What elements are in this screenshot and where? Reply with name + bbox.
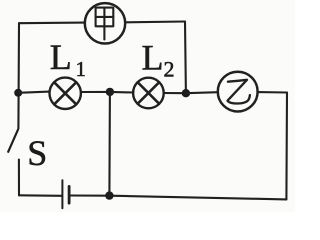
battery long plate (61, 180, 63, 208)
lamp L2 circle (133, 78, 164, 109)
wire bottom (right corner to battery) (70, 196, 286, 200)
wire meter 甲 to top-right corner (125, 20, 185, 23)
battery short plate (68, 186, 71, 203)
junction node B bottom tap (105, 191, 113, 199)
wire right vertical (285, 93, 288, 200)
meter 乙 character stroke (228, 80, 250, 104)
svg-text:2: 2 (164, 57, 175, 82)
meter 甲 circle (85, 3, 125, 43)
svg-text:S: S (27, 133, 47, 173)
wire battery to bottom-left corner (19, 194, 61, 197)
wire node B to lamp L2 (110, 91, 133, 94)
meter 乙 circle (218, 72, 258, 112)
junction node A (left, lamp branch tap) (14, 89, 22, 97)
wire left vertical (node A down to switch S) (17, 23, 20, 129)
svg-text:1: 1 (76, 57, 87, 81)
wire node B vertical to bottom (108, 92, 111, 196)
wire node C to meter 乙 (186, 92, 218, 93)
lamp L1 cross (54, 82, 76, 104)
wire bottom-left vertical (switch S to battery) (18, 160, 20, 196)
wire lamp L2 to node C (164, 92, 186, 94)
wire node A to lamp L1 (18, 92, 49, 93)
wire top-left horizontal (node A to meter 甲) (19, 22, 85, 25)
wire meter 乙 to right edge (258, 91, 287, 94)
wire lamp L1 to node B (81, 91, 110, 93)
junction node C (182, 89, 190, 97)
svg-text:L: L (142, 38, 164, 78)
junction node B (106, 88, 114, 96)
lamp L1 circle (49, 78, 80, 109)
label L1 (50, 37, 86, 81)
svg-text:L: L (50, 37, 72, 77)
switch S blade (8, 130, 18, 152)
meter 甲 character strokes (96, 8, 114, 40)
label L2 (142, 38, 175, 82)
wire top-right vertical down to node C (184, 22, 187, 94)
lamp L2 cross (138, 82, 159, 103)
